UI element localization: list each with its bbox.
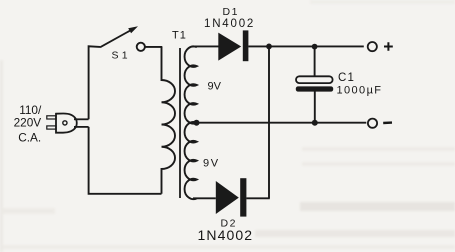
wire switch to transformer	[145, 46, 162, 48]
wire secondary bottom to D2	[193, 197, 216, 199]
plug prong lower	[47, 126, 56, 129]
svg-text:9V: 9V	[203, 158, 220, 170]
svg-text:9V: 9V	[208, 80, 222, 92]
svg-text:D1: D1	[223, 6, 239, 18]
transformer T1 secondary winding	[185, 46, 197, 199]
node capacitor top	[312, 44, 318, 50]
wire D2 to vertical	[246, 197, 269, 199]
wire left vertical upper	[89, 46, 100, 119]
label + sign	[384, 42, 393, 51]
wire plug upper lead	[74, 118, 89, 120]
diode D1 triangle	[218, 33, 241, 61]
svg-text:1N4002: 1N4002	[204, 18, 255, 30]
plug body	[56, 113, 77, 132]
wire secondary top to D1	[192, 45, 219, 47]
node center tap	[194, 120, 200, 126]
wire + rail	[248, 45, 363, 47]
terminal - circle	[368, 119, 377, 128]
wire plug lower lead	[74, 126, 89, 128]
wire left vertical lower	[89, 127, 162, 194]
node capacitor bottom	[312, 120, 318, 126]
svg-text:C.A.: C.A.	[18, 130, 41, 144]
wire D2 vertical riser	[268, 46, 270, 198]
switch S1 lever	[100, 29, 133, 47]
capacitor C1 bottom plate	[296, 86, 333, 91]
capacitor C1 bottom lead	[314, 91, 316, 122]
diode D1 cathode bar	[243, 30, 249, 61]
terminal + circle	[368, 42, 377, 51]
capacitor C1 top lead	[314, 47, 316, 77]
svg-text:C1: C1	[338, 72, 355, 84]
switch S1 arrowhead	[128, 26, 138, 33]
svg-text:1000µF: 1000µF	[337, 85, 383, 97]
svg-text:220V: 220V	[14, 116, 42, 130]
capacitor C1 top plate	[296, 76, 333, 83]
svg-text:1N4002: 1N4002	[198, 227, 254, 243]
plug center screw	[63, 121, 67, 125]
svg-text:S1: S1	[112, 50, 131, 62]
diode D2 triangle	[216, 181, 239, 214]
plug prong upper	[47, 116, 56, 119]
label - sign	[383, 121, 392, 124]
transformer T1 core	[179, 48, 181, 198]
diode D2 cathode bar	[240, 178, 246, 216]
svg-text:T1: T1	[172, 29, 187, 41]
node D1/D2 junction	[266, 44, 272, 50]
switch S1 contact circle	[137, 43, 145, 51]
transformer T1 primary winding	[162, 47, 176, 194]
label 110/220V C.A.	[14, 103, 42, 144]
wire 0V middle rail	[197, 122, 367, 124]
